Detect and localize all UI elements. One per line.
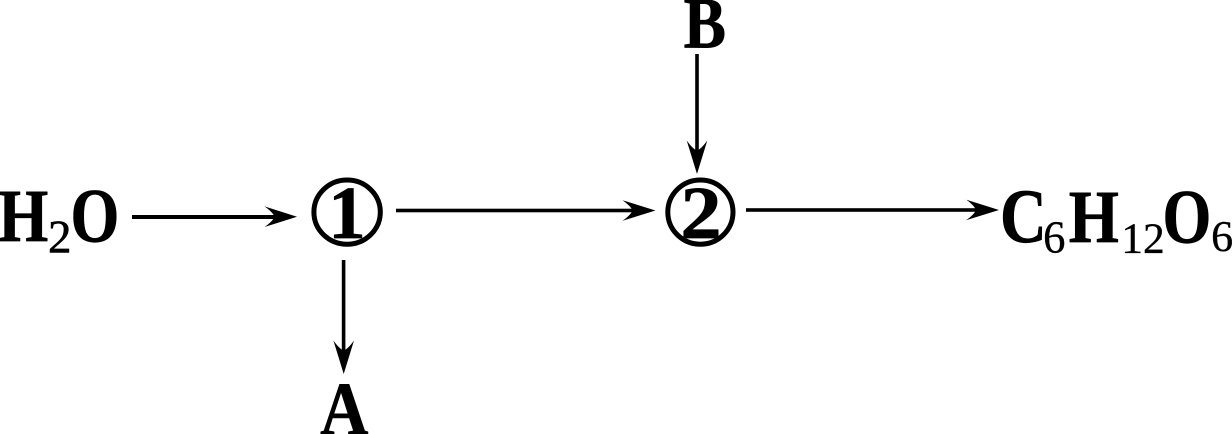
wire arrow step 1 down to A [333, 260, 354, 374]
node step 2 (circled 2) [668, 172, 733, 255]
node A (product label) [320, 368, 368, 434]
wire arrow H2O to step 1 [132, 206, 297, 227]
wire arrow B down to step 2 [687, 54, 708, 174]
svg-text:O: O [1163, 174, 1212, 260]
svg-text:O: O [71, 173, 120, 259]
node B (input label) [684, 0, 726, 64]
svg-text:12: 12 [1121, 215, 1165, 263]
node C6H12O6 (product label) [1000, 173, 1232, 263]
svg-text:6: 6 [1211, 212, 1232, 261]
wire arrow step 1 to step 2 [396, 200, 656, 221]
svg-text:A: A [320, 368, 368, 434]
wire arrow step 2 to C6H12O6 [746, 200, 999, 221]
svg-text:H: H [0, 175, 48, 258]
node H2O (reactant label) [0, 173, 119, 264]
svg-text:H: H [1069, 176, 1119, 259]
svg-text:1: 1 [328, 172, 366, 255]
svg-text:2: 2 [48, 212, 72, 264]
svg-text:B: B [684, 0, 726, 64]
svg-text:2: 2 [680, 172, 721, 255]
node step 1 (circled 1) [314, 172, 380, 255]
svg-text:C: C [1000, 173, 1047, 259]
svg-text:6: 6 [1043, 212, 1065, 263]
